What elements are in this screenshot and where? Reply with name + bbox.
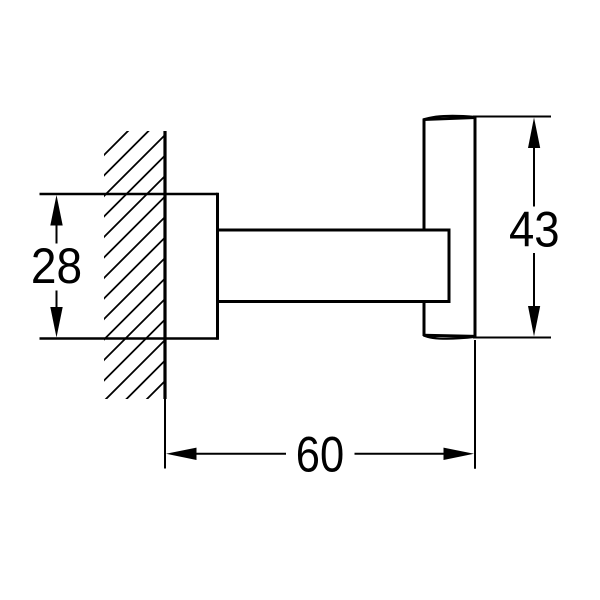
wall plate right edge <box>216 193 219 340</box>
dimension 60 left extension line <box>164 399 166 469</box>
svg-text:28: 28 <box>31 239 82 294</box>
end cap top edge <box>424 118 476 120</box>
dimension 43 label <box>509 203 560 258</box>
wall hatching <box>89 89 170 478</box>
arm top edge <box>218 229 450 232</box>
end cap top edge arc <box>424 116 476 120</box>
dimension 60 line right segment <box>355 453 445 455</box>
end cap bottom edge arc <box>424 335 476 339</box>
dimension 43 bottom extension line <box>473 337 551 339</box>
dimension 60 right arrow <box>444 448 475 460</box>
dimension 60 label <box>296 427 344 482</box>
dimension 43 top arrow <box>528 118 540 149</box>
dimension 28 bottom arrow <box>50 307 62 338</box>
dimension 28 line upper segment <box>56 225 58 244</box>
wall line <box>163 131 166 399</box>
end cap bottom edge <box>424 335 476 336</box>
dimension 43 line lower segment <box>533 253 535 307</box>
dimension 43 line upper segment <box>533 148 535 207</box>
dimension 60 right extension line <box>474 340 476 469</box>
end cap left edge upper segment <box>423 119 426 231</box>
dimension 28 top arrow <box>50 195 62 226</box>
dimension 43 top extension line <box>473 116 551 118</box>
dimension 28 label <box>31 239 82 294</box>
dimension 60 left arrow <box>166 448 197 460</box>
dimension 28 line lower segment <box>56 291 58 308</box>
wall plate bottom edge / 28 bottom extension line <box>40 337 218 339</box>
svg-text:43: 43 <box>509 203 560 258</box>
arm right edge <box>448 229 451 304</box>
svg-text:60: 60 <box>296 427 344 482</box>
arm bottom edge <box>218 300 450 303</box>
wall plate top edge / 28 top extension line <box>40 193 218 195</box>
dimension 60 line left segment <box>196 453 286 455</box>
end cap left edge lower segment <box>423 302 426 337</box>
end cap right edge <box>474 118 477 338</box>
dimension 43 bottom arrow <box>528 306 540 337</box>
